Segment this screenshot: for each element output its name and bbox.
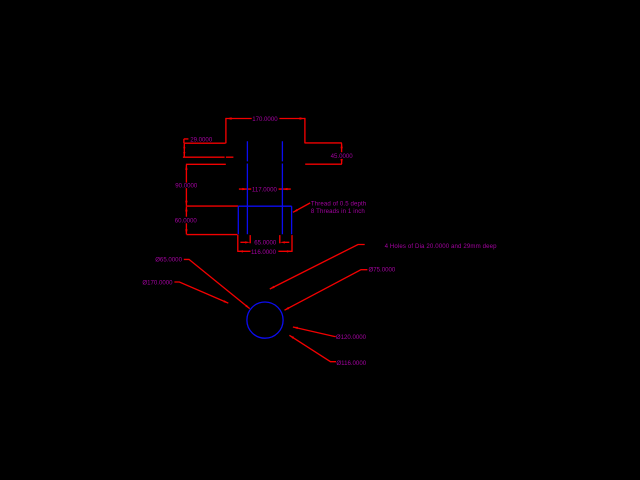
svg-text:Ø116.0000: Ø116.0000: [336, 360, 366, 367]
arrow 29 bottom: [183, 152, 185, 157]
60 dim vertical (text gap): [185, 206, 187, 234]
svg-text:65.0000: 65.0000: [254, 240, 277, 247]
arrow d65 leader: [245, 305, 250, 309]
extension x=279.8: [279, 235, 281, 243]
extension x=237.8: [237, 235, 239, 252]
arrow d116 leader: [289, 335, 294, 339]
arrow thread leader: [293, 209, 298, 212]
edge y=164 left: [186, 163, 226, 165]
edge y=157: [183, 156, 234, 158]
svg-text:Thread of 0.5 depth: Thread of 0.5 depth: [311, 200, 366, 207]
svg-text:8 Threads in 1 inch: 8 Threads in 1 inch: [311, 208, 365, 215]
right step edge y=143: [305, 142, 342, 144]
svg-text:Ø75.0000: Ø75.0000: [369, 266, 396, 273]
4holes leader line: [270, 245, 365, 290]
svg-text:45.0000: 45.0000: [331, 153, 354, 160]
svg-text:170.0000: 170.0000: [252, 116, 278, 123]
d65 leader line: [184, 259, 250, 308]
centerline right x=282.4: [281, 141, 283, 234]
thread rect left: [237, 206, 239, 234]
65 dim line tails: [240, 241, 289, 243]
left shelf edge y=143: [184, 142, 226, 144]
svg-text:Ø120.0000: Ø120.0000: [336, 334, 367, 341]
arrow 45 bottom: [341, 159, 343, 164]
29 dim vertical: [183, 144, 185, 157]
svg-text:Ø65.0000: Ø65.0000: [155, 257, 182, 264]
thread rect top: [238, 205, 291, 207]
svg-text:117.0000: 117.0000: [252, 187, 278, 194]
116 dim line (text gap): [238, 250, 292, 252]
thread leader line: [293, 203, 310, 212]
arrow 170 right: [300, 117, 305, 119]
arrow 117 left: [242, 188, 247, 190]
arrow 116 right: [287, 250, 292, 252]
right vertical of flange: [304, 118, 306, 143]
arrow 90 top: [185, 165, 187, 170]
arrow 4holes leader: [270, 286, 275, 289]
arrow d75 leader: [284, 307, 289, 310]
arrow 117 right: [283, 188, 288, 190]
svg-text:116.0000: 116.0000: [251, 249, 277, 256]
arrow 65 left: [245, 241, 250, 243]
svg-text:4 Holes of Dia 20.0000 and 29m: 4 Holes of Dia 20.0000 and 29mm deep: [385, 243, 498, 250]
circle (bottom view): [247, 302, 283, 338]
arrow d120 leader: [293, 327, 298, 329]
arrow 60 top: [185, 206, 187, 211]
right edge y=164: [305, 163, 342, 165]
step top edge y=206: [187, 205, 239, 207]
arrow 45 top: [341, 143, 343, 148]
left vertical of flange: [225, 118, 227, 143]
arrow 90 bottom: [185, 201, 187, 206]
arrow 60 bottom: [185, 229, 187, 234]
svg-text:29.0000: 29.0000: [190, 136, 213, 143]
117 dim line (text gap): [239, 188, 291, 190]
top edge with 170 dim line (text gap): [226, 118, 305, 120]
extension x=250.2: [249, 235, 251, 243]
svg-text:Ø170.0000: Ø170.0000: [142, 279, 173, 286]
extension x=292.0: [291, 235, 293, 252]
90 dim vertical (text gap): [185, 165, 187, 206]
45 dim vertical (text gap): [341, 143, 343, 164]
d120 leader line: [293, 327, 336, 337]
29 dim hook: [184, 139, 189, 143]
centerline left x=247.4: [246, 141, 248, 234]
d116 leader line: [289, 335, 336, 361]
thread rect right: [291, 206, 293, 234]
arrow d170 leader: [224, 300, 229, 303]
svg-text:90.0000: 90.0000: [175, 183, 198, 190]
d170 leader line: [174, 282, 228, 303]
bottom edge y=234.6: [187, 234, 238, 236]
d75 leader line: [285, 270, 368, 311]
arrow 116 left: [238, 250, 243, 252]
arrow 170 left: [227, 117, 232, 119]
svg-text:60.0000: 60.0000: [175, 217, 198, 224]
arrow 65 right: [280, 241, 285, 243]
arrow 29 top: [183, 144, 185, 149]
